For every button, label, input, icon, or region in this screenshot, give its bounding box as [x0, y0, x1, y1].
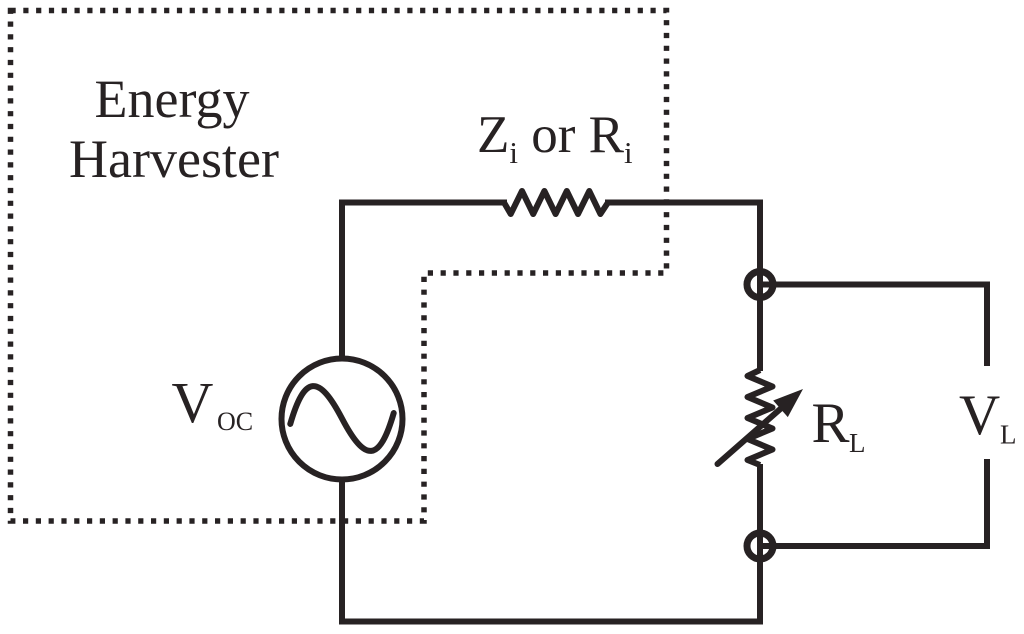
resistor RL (variable, vertical zigzag) [748, 370, 773, 465]
svg-text:L: L [849, 428, 866, 458]
AC source VOC [282, 359, 403, 480]
wire: top node to VL top [760, 285, 987, 364]
wire: resistor right, corner down to RL top [608, 203, 760, 369]
svg-text:Zi or Ri: Zi or Ri [477, 106, 633, 170]
wire: top-left (source top to resistor) [342, 203, 504, 356]
wire: source bottom, bottom run, left of bottom node [342, 467, 760, 622]
svg-text:OC: OC [217, 407, 253, 436]
label: Zi or Ri [477, 106, 633, 170]
wire: VL bottom to bottom node [760, 462, 987, 546]
svg-text:Energy: Energy [95, 69, 250, 129]
label: RL [812, 392, 866, 458]
svg-text:Harvester: Harvester [69, 129, 279, 189]
label: Energy Harvester [69, 69, 279, 189]
arrow: variable resistor indicator [718, 389, 804, 464]
resistor Zi/Ri [504, 191, 608, 214]
svg-text:R: R [812, 392, 850, 455]
label: VOC [172, 370, 254, 436]
dotted box: Energy Harvester boundary [11, 11, 667, 522]
node: top junction [747, 272, 773, 298]
label: VL [959, 384, 1017, 450]
node: bottom junction [747, 533, 773, 559]
svg-text:L: L [1000, 420, 1017, 450]
svg-text:V: V [959, 384, 1000, 447]
svg-text:V: V [172, 370, 214, 435]
